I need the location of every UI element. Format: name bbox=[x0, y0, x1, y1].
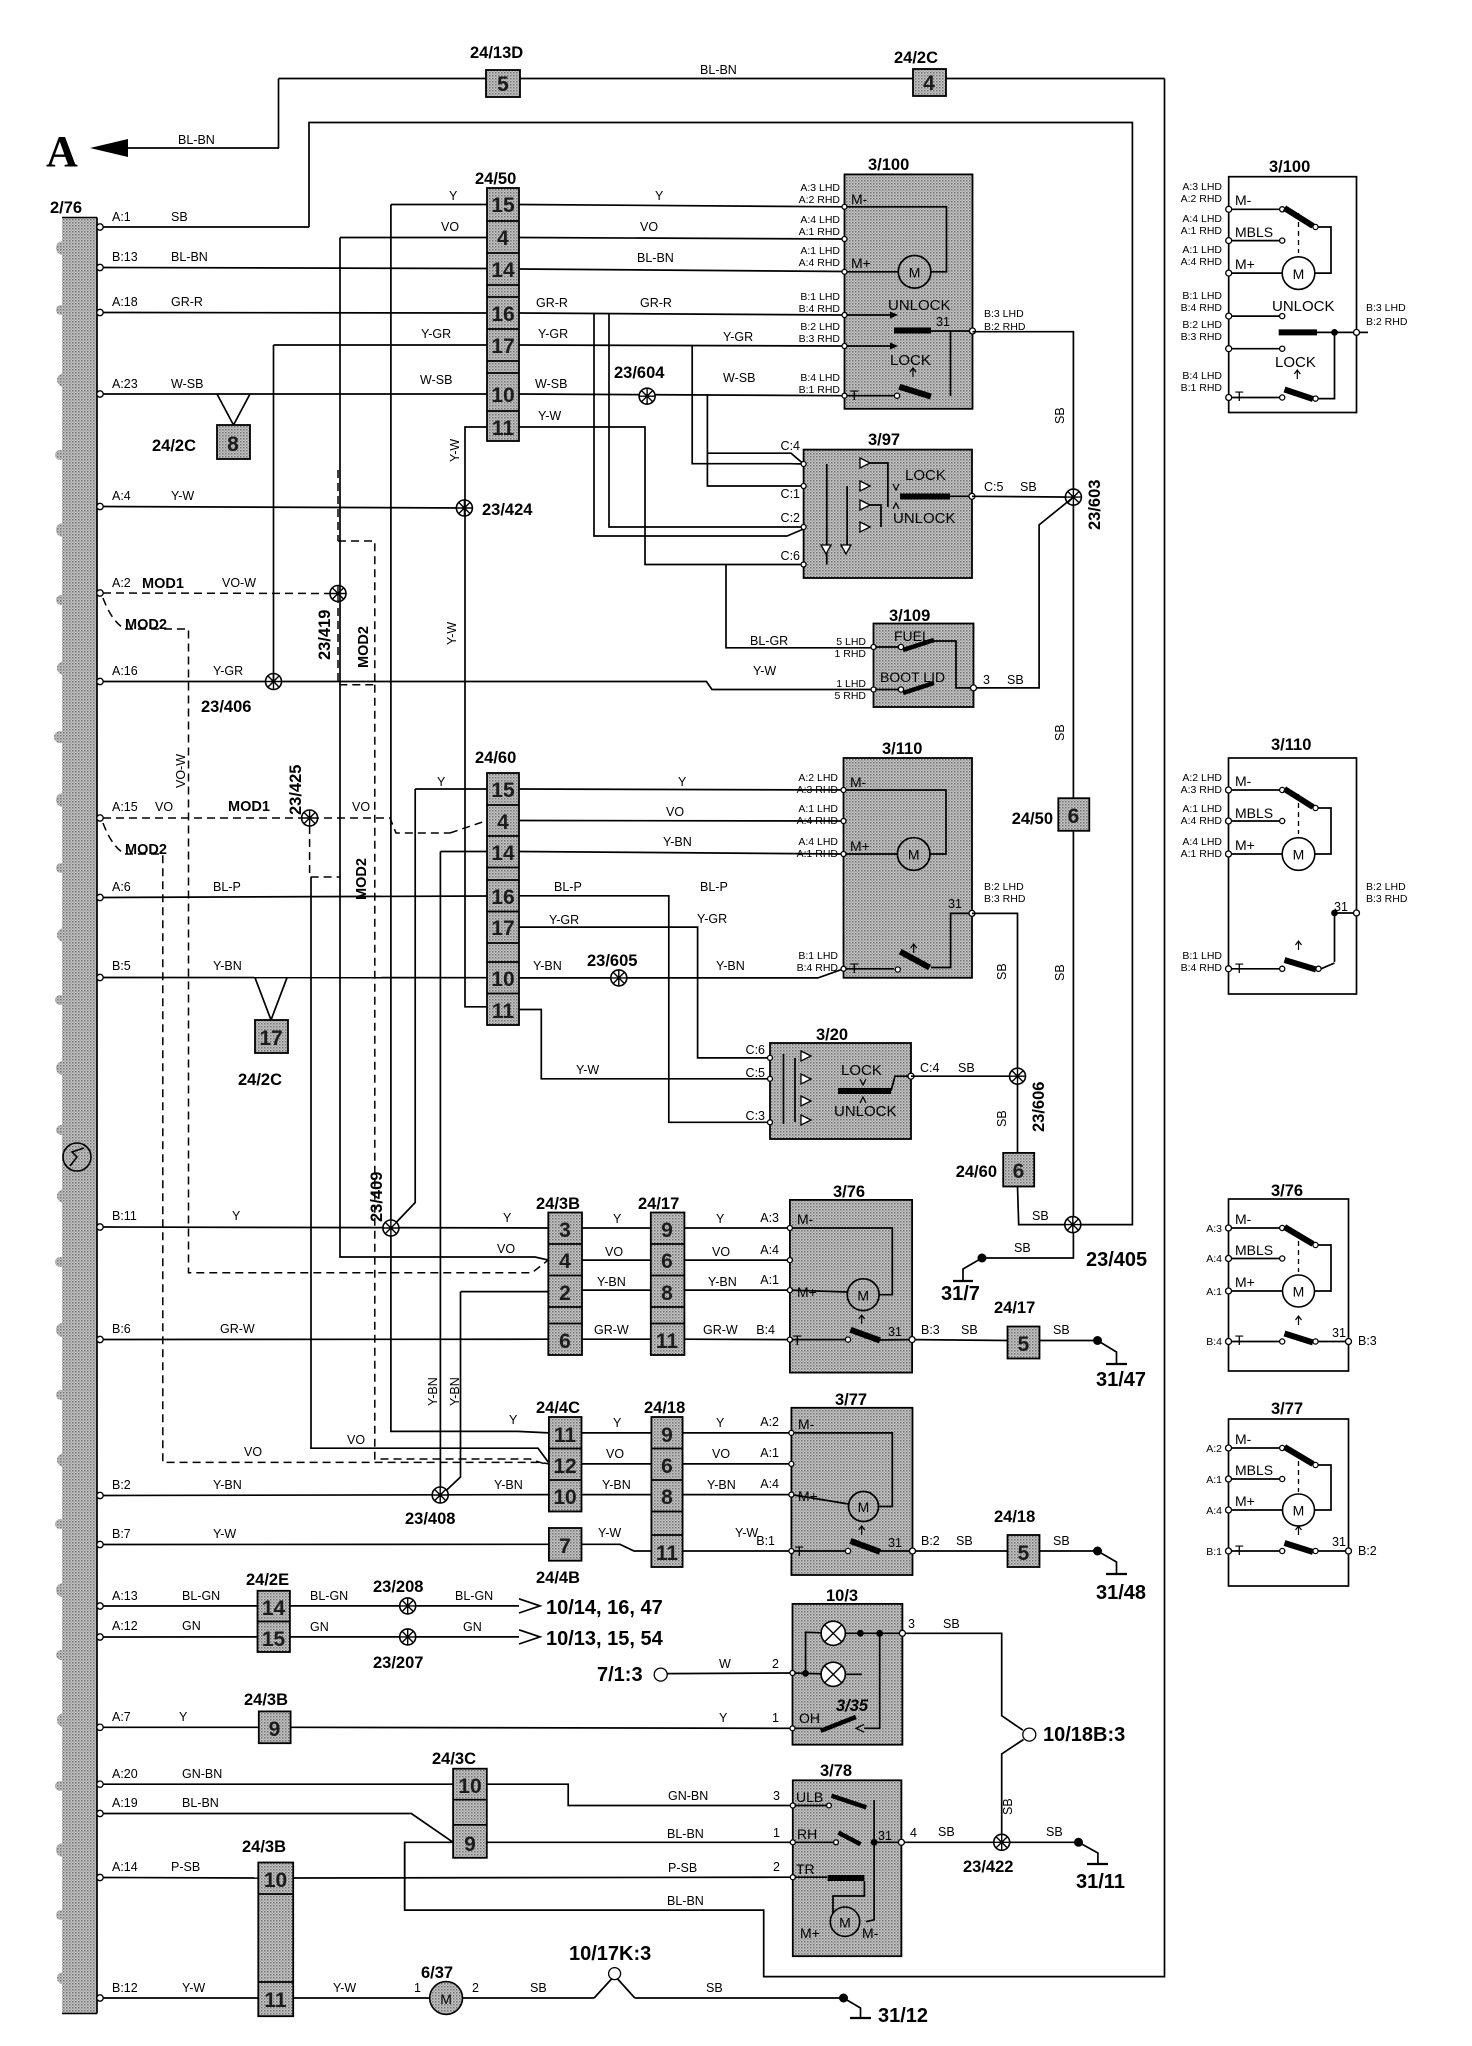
svg-text:23/208: 23/208 bbox=[373, 1578, 423, 1596]
svg-text:11: 11 bbox=[264, 1989, 287, 2012]
svg-text:A:1 RHD: A:1 RHD bbox=[797, 848, 839, 860]
pin 2/76 B:12 + wire Y-W bbox=[97, 1981, 430, 2001]
svg-text:11: 11 bbox=[656, 1330, 679, 1353]
svg-text:B:4 RHD: B:4 RHD bbox=[1181, 962, 1223, 974]
svg-text:10: 10 bbox=[264, 1869, 287, 1892]
svg-text:3: 3 bbox=[983, 673, 990, 687]
svg-text:24/17: 24/17 bbox=[994, 1299, 1035, 1317]
svg-text:B:3 RHD: B:3 RHD bbox=[1181, 331, 1223, 343]
svg-text:Y-BN: Y-BN bbox=[213, 1478, 242, 1492]
svg-text:31/48: 31/48 bbox=[1096, 1582, 1146, 1604]
svg-text:Y-BN: Y-BN bbox=[213, 959, 242, 973]
svg-text:Y-W: Y-W bbox=[171, 489, 194, 503]
connector 24/2C pin 17 (below B:5 wire) bbox=[238, 978, 288, 1089]
wire top BL-BN bus (y=78.5) bbox=[279, 78, 1165, 80]
svg-text:A:2: A:2 bbox=[1206, 1443, 1222, 1455]
svg-text:LOCK: LOCK bbox=[890, 352, 931, 369]
svg-text:4: 4 bbox=[497, 227, 509, 250]
svg-text:M+: M+ bbox=[1235, 1274, 1255, 1290]
svg-text:A:2: A:2 bbox=[112, 576, 131, 590]
svg-text:P-SB: P-SB bbox=[171, 1860, 200, 1874]
svg-text:24/4B: 24/4B bbox=[536, 1569, 580, 1587]
svg-text:11: 11 bbox=[492, 417, 515, 440]
svg-text:B:2 LHD: B:2 LHD bbox=[1366, 881, 1406, 893]
svg-text:B:2: B:2 bbox=[921, 1534, 940, 1548]
svg-text:M: M bbox=[908, 847, 920, 863]
component 10/3 (interior lamp unit) bbox=[793, 1587, 906, 1745]
pin 2/76 A:1 + wire SB bbox=[97, 210, 309, 230]
svg-text:LOCK: LOCK bbox=[1275, 354, 1316, 371]
svg-text:MBLS: MBLS bbox=[1235, 224, 1273, 240]
svg-text:1 RHD: 1 RHD bbox=[834, 648, 866, 660]
svg-text:10: 10 bbox=[491, 384, 514, 407]
svg-text:T: T bbox=[1235, 1542, 1244, 1558]
svg-text:M: M bbox=[909, 265, 921, 281]
svg-text:24/3B: 24/3B bbox=[536, 1195, 580, 1213]
connector 24/17 column bbox=[638, 1195, 684, 1355]
svg-text:M: M bbox=[1293, 1503, 1305, 1519]
pin labels 10/3 bbox=[772, 1617, 960, 1725]
svg-text:2/76: 2/76 bbox=[50, 199, 82, 217]
pin 2/76 A:12 + wire GN bbox=[97, 1619, 664, 1650]
svg-text:SB: SB bbox=[943, 1617, 960, 1631]
svg-text:31: 31 bbox=[878, 1829, 892, 1843]
svg-text:8: 8 bbox=[661, 1486, 673, 1509]
svg-text:SB: SB bbox=[1053, 407, 1067, 424]
svg-text:24/2E: 24/2E bbox=[246, 1571, 289, 1589]
svg-text:Y-BN: Y-BN bbox=[426, 1377, 440, 1406]
svg-text:C:4: C:4 bbox=[781, 439, 801, 453]
svg-text:A:4: A:4 bbox=[760, 1243, 779, 1257]
svg-text:31: 31 bbox=[888, 1536, 902, 1550]
svg-text:B:3: B:3 bbox=[1358, 1334, 1377, 1348]
svg-text:A:20: A:20 bbox=[112, 1767, 138, 1781]
wire A-arrow riser bbox=[278, 79, 280, 149]
svg-text:GN-BN: GN-BN bbox=[668, 1789, 708, 1803]
junction 23/605 bbox=[587, 952, 637, 986]
ground 31/7 bbox=[941, 1258, 982, 1305]
svg-text:Y-BN: Y-BN bbox=[707, 1478, 736, 1492]
svg-text:VO: VO bbox=[606, 1447, 624, 1461]
svg-text:M+: M+ bbox=[1235, 256, 1255, 272]
ground 31/11 bbox=[1076, 1842, 1125, 1893]
svg-text:1 LHD: 1 LHD bbox=[836, 678, 866, 690]
svg-text:GN-BN: GN-BN bbox=[182, 1767, 222, 1781]
pin labels 3/110 bbox=[797, 772, 1026, 974]
svg-text:W-SB: W-SB bbox=[171, 377, 203, 391]
svg-text:C:5: C:5 bbox=[746, 1066, 766, 1080]
svg-text:VO: VO bbox=[155, 800, 173, 814]
connector 24/13D pin 5 bbox=[470, 44, 523, 97]
svg-text:VO-W: VO-W bbox=[174, 754, 188, 788]
svg-text:Y: Y bbox=[613, 1416, 622, 1430]
svg-text:A:1 LHD: A:1 LHD bbox=[1182, 244, 1222, 256]
svg-text:23/419: 23/419 bbox=[316, 610, 334, 660]
svg-text:VO: VO bbox=[497, 1242, 515, 1256]
svg-text:A:1: A:1 bbox=[760, 1446, 779, 1460]
svg-text:Y-W: Y-W bbox=[445, 622, 459, 645]
svg-text:A:4: A:4 bbox=[1206, 1505, 1222, 1517]
svg-text:A:4 LHD: A:4 LHD bbox=[1182, 836, 1222, 848]
svg-text:B:1: B:1 bbox=[1206, 1546, 1222, 1558]
wire SB from 3/78 pin4 through 23/422 to ground dot bbox=[904, 1825, 1083, 1847]
svg-text:SB: SB bbox=[706, 1981, 723, 1995]
svg-text:Y: Y bbox=[509, 1413, 518, 1427]
svg-text:31: 31 bbox=[1332, 1326, 1346, 1340]
svg-text:B:6: B:6 bbox=[112, 1322, 131, 1336]
svg-text:8: 8 bbox=[227, 433, 239, 456]
node 10/18B:3 bbox=[1023, 1724, 1125, 1746]
svg-text:B:1 LHD: B:1 LHD bbox=[1182, 950, 1222, 962]
svg-text:SB: SB bbox=[1032, 1209, 1049, 1223]
svg-text:B:12: B:12 bbox=[112, 1981, 138, 1995]
svg-text:10: 10 bbox=[458, 1775, 481, 1798]
svg-text:W-SB: W-SB bbox=[420, 373, 452, 387]
svg-text:B:4 RHD: B:4 RHD bbox=[1181, 302, 1223, 314]
svg-text:2: 2 bbox=[773, 1860, 780, 1874]
pin 2/76 B:7 + wire Y-W bbox=[97, 1526, 792, 1551]
svg-text:23/207: 23/207 bbox=[373, 1654, 423, 1672]
svg-text:B:1 LHD: B:1 LHD bbox=[798, 950, 838, 962]
svg-text:M-: M- bbox=[1235, 1211, 1252, 1227]
svg-text:SB: SB bbox=[530, 1981, 547, 1995]
junction 23/405 bbox=[1032, 1209, 1147, 1271]
wire BL-BN return (24/3C pin9 to bottom loop) bbox=[405, 1842, 704, 1910]
svg-text:P-SB: P-SB bbox=[668, 1861, 697, 1875]
connector 24/50 pin 6 (inline box on SB wire) bbox=[1012, 505, 1090, 1218]
wire MOD2 dashed loop at 23/419 bbox=[338, 470, 545, 1464]
svg-text:BL-P: BL-P bbox=[700, 880, 728, 894]
svg-text:7/1:3: 7/1:3 bbox=[597, 1664, 643, 1686]
svg-text:5: 5 bbox=[497, 73, 509, 96]
svg-text:4: 4 bbox=[497, 811, 509, 834]
svg-text:C:6: C:6 bbox=[746, 1043, 766, 1057]
svg-text:3/109: 3/109 bbox=[889, 607, 930, 625]
svg-text:VO: VO bbox=[347, 1433, 365, 1447]
connector 24/60 pin 6 (inline box on SB wire) bbox=[956, 1084, 1034, 1187]
svg-text:14: 14 bbox=[491, 842, 515, 865]
svg-text:9: 9 bbox=[661, 1219, 673, 1242]
svg-text:BL-BN: BL-BN bbox=[700, 63, 737, 77]
svg-text:16: 16 bbox=[491, 886, 514, 909]
connector 24/17 pin 5 + wire SB to ground bbox=[915, 1299, 1102, 1359]
svg-text:M-: M- bbox=[862, 1925, 879, 1941]
svg-text:GN: GN bbox=[463, 1620, 482, 1634]
svg-text:MBLS: MBLS bbox=[1235, 1242, 1273, 1258]
svg-text:23/409: 23/409 bbox=[368, 1172, 386, 1222]
svg-text:B:3 LHD: B:3 LHD bbox=[1366, 302, 1406, 314]
svg-text:LOCK: LOCK bbox=[841, 1062, 882, 1079]
pin 2/76 A:13 + wire BL-GN bbox=[97, 1589, 663, 1619]
component pin terminals bbox=[768, 204, 877, 1879]
junction 23/208 bbox=[373, 1578, 423, 1614]
wire MOD2 dashed branch from A:2 bbox=[103, 598, 549, 1273]
svg-text:6: 6 bbox=[661, 1455, 673, 1478]
svg-text:BL-GN: BL-GN bbox=[455, 1589, 493, 1603]
svg-text:B:4 LHD: B:4 LHD bbox=[1182, 370, 1222, 382]
svg-text:14: 14 bbox=[262, 1597, 286, 1620]
pin 2/76 A:6 + wire BL-P bbox=[97, 880, 770, 1122]
svg-text:A:1 LHD: A:1 LHD bbox=[800, 245, 840, 257]
svg-text:BL-BN: BL-BN bbox=[637, 251, 674, 265]
svg-text:24/18: 24/18 bbox=[644, 1399, 685, 1417]
svg-text:23/408: 23/408 bbox=[405, 1510, 455, 1528]
svg-text:M+: M+ bbox=[1235, 837, 1255, 853]
svg-text:A:1 LHD: A:1 LHD bbox=[798, 803, 838, 815]
svg-text:B:4 RHD: B:4 RHD bbox=[799, 303, 841, 315]
svg-text:A:1: A:1 bbox=[112, 210, 131, 224]
svg-text:Y-W: Y-W bbox=[576, 1063, 599, 1077]
svg-text:23/405: 23/405 bbox=[1086, 1249, 1147, 1271]
svg-text:M-: M- bbox=[1235, 1431, 1252, 1447]
svg-text:31: 31 bbox=[948, 897, 962, 911]
svg-text:2: 2 bbox=[472, 1981, 479, 1995]
svg-text:VO: VO bbox=[712, 1245, 730, 1259]
svg-text:23/606: 23/606 bbox=[1030, 1082, 1048, 1132]
wire SB from 3/110 pin31 to 23/606 bbox=[972, 913, 1018, 1068]
svg-text:A:3 LHD: A:3 LHD bbox=[1182, 181, 1222, 193]
svg-text:Y-GR: Y-GR bbox=[213, 664, 243, 678]
wire Y-GR (24/60 pin17 to 3/20 C:6) bbox=[519, 912, 770, 1058]
wire SB from 6/37 to 31/12 with 10/17K:3 bbox=[463, 1979, 849, 2003]
svg-text:A:1: A:1 bbox=[1206, 1286, 1222, 1298]
svg-text:Y-BN: Y-BN bbox=[597, 1275, 626, 1289]
wire Y-BN row (23/408 riser to 24/3B pin2) bbox=[443, 1275, 790, 1494]
svg-text:MBLS: MBLS bbox=[1235, 805, 1273, 821]
pin 2/76 A:23 + wire W-SB bbox=[97, 371, 845, 486]
svg-text:A:3 RHD: A:3 RHD bbox=[797, 784, 839, 796]
wire Y-W (24/60 pin11 to 3/20 C:5) bbox=[519, 1010, 770, 1079]
svg-text:BL-BN: BL-BN bbox=[182, 1796, 219, 1810]
svg-text:Y-BN: Y-BN bbox=[533, 959, 562, 973]
svg-text:SB: SB bbox=[1014, 1241, 1031, 1255]
svg-text:VO: VO bbox=[441, 220, 459, 234]
svg-text:C:2: C:2 bbox=[781, 511, 801, 525]
wire SB 23/603 to 3/109 pin3 bbox=[974, 497, 1074, 688]
svg-text:Y: Y bbox=[678, 775, 687, 789]
svg-text:VO: VO bbox=[712, 1447, 730, 1461]
svg-text:B:2: B:2 bbox=[112, 1478, 131, 1492]
svg-text:5: 5 bbox=[1018, 1542, 1030, 1565]
svg-text:15: 15 bbox=[491, 779, 515, 802]
svg-text:A:14: A:14 bbox=[112, 1860, 138, 1874]
reference diagram 3/100 bbox=[1181, 158, 1408, 413]
svg-text:Y: Y bbox=[655, 189, 664, 203]
svg-text:M: M bbox=[839, 1914, 851, 1930]
svg-text:T: T bbox=[1235, 388, 1244, 404]
svg-text:SB: SB bbox=[961, 1323, 978, 1337]
svg-text:B:2 RHD: B:2 RHD bbox=[1366, 316, 1408, 328]
svg-text:16: 16 bbox=[491, 303, 514, 326]
svg-text:SB: SB bbox=[958, 1061, 975, 1075]
wire SB from 3/100 to 23/603 bbox=[973, 332, 1074, 489]
svg-text:2: 2 bbox=[559, 1282, 571, 1305]
pin labels 3/109 bbox=[750, 634, 1024, 702]
svg-text:M-: M- bbox=[851, 191, 868, 207]
svg-text:A:4: A:4 bbox=[760, 1477, 779, 1491]
svg-text:A:2 LHD: A:2 LHD bbox=[798, 772, 838, 784]
svg-text:23/425: 23/425 bbox=[287, 765, 305, 815]
svg-text:GN: GN bbox=[310, 1620, 329, 1634]
svg-text:Y-BN: Y-BN bbox=[716, 959, 745, 973]
svg-text:24/2C: 24/2C bbox=[894, 49, 938, 67]
bus continuation symbol on 2/76 bbox=[63, 1143, 91, 1171]
svg-text:24/3B: 24/3B bbox=[242, 1838, 286, 1856]
pin 2/76 A:14 + wire P-SB bbox=[97, 1860, 793, 1881]
svg-text:MOD1: MOD1 bbox=[142, 576, 184, 592]
svg-text:31/7: 31/7 bbox=[941, 1283, 980, 1305]
connector 24/50 column bbox=[475, 170, 519, 441]
pin 2/76 B:2 + wire Y-BN bbox=[97, 1478, 792, 1499]
node 7/1:3 + wire W bbox=[597, 1657, 793, 1686]
svg-text:10: 10 bbox=[553, 1486, 576, 1509]
svg-text:24/3B: 24/3B bbox=[244, 1691, 288, 1709]
svg-text:Y: Y bbox=[437, 775, 446, 789]
svg-text:BL-GN: BL-GN bbox=[182, 1589, 220, 1603]
svg-text:1: 1 bbox=[773, 1826, 780, 1840]
svg-text:SB: SB bbox=[956, 1534, 973, 1548]
svg-text:Y: Y bbox=[716, 1416, 725, 1430]
svg-text:24/50: 24/50 bbox=[475, 170, 516, 188]
svg-text:B:1 LHD: B:1 LHD bbox=[1182, 290, 1222, 302]
svg-text:M+: M+ bbox=[850, 838, 870, 854]
svg-text:UNLOCK: UNLOCK bbox=[888, 297, 951, 314]
connector 24/3C column bbox=[432, 1750, 487, 1858]
svg-text:A:12: A:12 bbox=[112, 1619, 138, 1633]
svg-text:5 LHD: 5 LHD bbox=[836, 636, 866, 648]
svg-text:GR-R: GR-R bbox=[171, 295, 203, 309]
connector 24/4C column bbox=[536, 1399, 582, 1512]
svg-text:A:13: A:13 bbox=[112, 1589, 138, 1603]
svg-text:12: 12 bbox=[553, 1455, 576, 1478]
svg-text:A:2 RHD: A:2 RHD bbox=[1181, 193, 1223, 205]
wire Y-W (24/50 pin11 to 3/97 C:6) bbox=[519, 409, 874, 648]
svg-text:M: M bbox=[1293, 266, 1305, 282]
svg-text:B:4 RHD: B:4 RHD bbox=[797, 962, 839, 974]
svg-text:VO: VO bbox=[352, 800, 370, 814]
svg-text:B:2 LHD: B:2 LHD bbox=[1182, 319, 1222, 331]
svg-text:31/12: 31/12 bbox=[878, 2005, 928, 2027]
svg-text:24/3C: 24/3C bbox=[432, 1750, 476, 1768]
svg-text:Y: Y bbox=[232, 1209, 241, 1223]
svg-text:RH: RH bbox=[797, 1826, 817, 1842]
svg-text:W-SB: W-SB bbox=[535, 377, 567, 391]
svg-text:SB: SB bbox=[995, 1110, 1009, 1127]
svg-text:MOD2: MOD2 bbox=[354, 858, 370, 900]
component 3/78 (boot lid lock unit) bbox=[793, 1762, 905, 1956]
svg-text:15: 15 bbox=[262, 1628, 286, 1651]
svg-text:A:19: A:19 bbox=[112, 1796, 138, 1810]
wire Y riser (24/50 pin15 to 23/409 and on to 24/4C) bbox=[391, 189, 845, 1433]
svg-text:17: 17 bbox=[491, 917, 514, 940]
svg-text:VO: VO bbox=[666, 805, 684, 819]
svg-text:6: 6 bbox=[559, 1330, 571, 1353]
svg-text:W: W bbox=[719, 1657, 731, 1671]
svg-text:B:1 RHD: B:1 RHD bbox=[1181, 382, 1223, 394]
node A (left-pointing arrow) bbox=[46, 127, 279, 176]
svg-text:M+: M+ bbox=[800, 1925, 820, 1941]
pin labels 3/97 bbox=[781, 439, 1037, 563]
connector 24/3B bottom column bbox=[242, 1838, 293, 2016]
svg-text:7: 7 bbox=[559, 1535, 571, 1558]
svg-text:24/50: 24/50 bbox=[1012, 810, 1053, 828]
svg-text:BL-BN: BL-BN bbox=[178, 133, 215, 147]
svg-text:3/100: 3/100 bbox=[1269, 158, 1310, 176]
svg-text:M: M bbox=[1293, 847, 1305, 863]
reference diagram 3/76 bbox=[1206, 1182, 1377, 1371]
pin 2/76 A:2 + dashed wire VO-W MOD1 bbox=[97, 576, 338, 596]
svg-text:3: 3 bbox=[908, 1617, 915, 1631]
component 3/110 (tailgate lock motor) bbox=[844, 740, 976, 978]
svg-text:1: 1 bbox=[414, 1981, 421, 1995]
svg-text:Y-BN: Y-BN bbox=[494, 1478, 523, 1492]
svg-text:BL-P: BL-P bbox=[213, 880, 241, 894]
pin 2/76 A:7 + wire Y bbox=[97, 1710, 793, 1731]
pin 2/76 B:6 + wire GR-W bbox=[97, 1322, 790, 1343]
svg-text:23/424: 23/424 bbox=[482, 501, 533, 519]
svg-text:A:18: A:18 bbox=[112, 295, 138, 309]
svg-text:3/78: 3/78 bbox=[820, 1762, 852, 1780]
svg-text:3/110: 3/110 bbox=[1271, 736, 1311, 754]
svg-text:M-: M- bbox=[850, 774, 867, 790]
wire right outer loop (x=1164.5) bbox=[405, 79, 1165, 1977]
wire MOD2 dashed branch from A:15 bbox=[103, 823, 549, 1464]
svg-text:BL-GR: BL-GR bbox=[750, 634, 788, 648]
wire Y riser (23/409 to 24/60 pin15) bbox=[391, 775, 844, 1228]
pin labels 3/76 bbox=[756, 1211, 940, 1337]
connector 24/2C pin 4 bbox=[894, 49, 946, 96]
svg-text:4: 4 bbox=[910, 1826, 917, 1840]
node 10/17K:3 bbox=[569, 1943, 651, 1980]
svg-text:17: 17 bbox=[491, 335, 514, 358]
svg-text:B:13: B:13 bbox=[112, 250, 138, 264]
svg-text:B:3 RHD: B:3 RHD bbox=[1366, 893, 1408, 905]
pin labels 3/100 left bbox=[799, 182, 1026, 396]
svg-text:10/3: 10/3 bbox=[826, 1587, 858, 1605]
svg-text:Y-GR: Y-GR bbox=[697, 912, 727, 926]
svg-text:BL-BN: BL-BN bbox=[171, 250, 208, 264]
svg-text:B:1 RHD: B:1 RHD bbox=[799, 384, 841, 396]
svg-text:M: M bbox=[440, 1991, 452, 2007]
svg-text:A:1 LHD: A:1 LHD bbox=[1182, 803, 1222, 815]
svg-text:BL-BN: BL-BN bbox=[667, 1827, 704, 1841]
svg-text:24/18: 24/18 bbox=[994, 1508, 1035, 1526]
svg-text:M-: M- bbox=[1235, 773, 1252, 789]
svg-text:31: 31 bbox=[1332, 1535, 1346, 1549]
connector 2/76 (left bus bar) bbox=[50, 199, 97, 2014]
svg-text:M: M bbox=[858, 1499, 870, 1515]
svg-text:BL-GN: BL-GN bbox=[310, 1589, 348, 1603]
svg-text:14: 14 bbox=[491, 259, 515, 282]
svg-text:Y-W: Y-W bbox=[182, 1981, 205, 1995]
svg-text:10: 10 bbox=[491, 968, 514, 991]
svg-text:ULB: ULB bbox=[796, 1789, 823, 1805]
svg-text:M: M bbox=[1293, 1284, 1305, 1300]
pin 2/76 A:20 + wire GN-BN bbox=[97, 1767, 793, 1806]
svg-text:6/37: 6/37 bbox=[421, 1964, 453, 1982]
svg-text:SB: SB bbox=[995, 963, 1009, 980]
connector 24/2E column bbox=[246, 1571, 290, 1652]
junction 23/422 bbox=[963, 1834, 1013, 1876]
svg-text:5 RHD: 5 RHD bbox=[834, 690, 866, 702]
reference diagram 3/77 bbox=[1206, 1400, 1377, 1586]
svg-text:10/18B:3: 10/18B:3 bbox=[1043, 1724, 1125, 1746]
svg-text:Y-GR: Y-GR bbox=[421, 327, 451, 341]
svg-text:A:2 RHD: A:2 RHD bbox=[799, 194, 841, 206]
svg-text:3: 3 bbox=[773, 1789, 780, 1803]
svg-text:2: 2 bbox=[772, 1657, 779, 1671]
svg-text:24/4C: 24/4C bbox=[536, 1399, 580, 1417]
